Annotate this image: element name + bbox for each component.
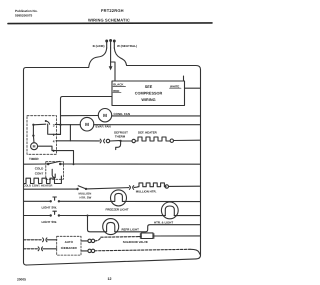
svg-text:M: M <box>33 145 36 149</box>
label REFR LIGHT <box>122 227 140 231</box>
timer terminal 4 stub to defrost row <box>56 140 70 142</box>
wire: contact bar to timer motor <box>32 136 35 143</box>
label BLACK with wire stub <box>113 83 124 87</box>
wire: mullion heater to right bus <box>169 185 201 187</box>
wire: icemaker bottom output to right bus corner <box>95 249 190 251</box>
timer internal contact dots and bar <box>32 124 34 126</box>
cold control contact dots <box>47 163 50 166</box>
wire: cold control heater link up into box <box>58 176 61 184</box>
timer terminal number 3 <box>53 123 55 127</box>
svg-text:FREEZER LIGHT: FREEZER LIGHT <box>106 208 129 212</box>
wire: solenoid valve to right bus <box>156 235 201 237</box>
solenoid valve coil <box>139 233 156 239</box>
svg-text:RED: RED <box>113 89 119 93</box>
connector: icemaker top feed <box>43 238 44 242</box>
label FREEZER LIGHT <box>106 208 129 212</box>
wire: icemaker top output to solenoid valve <box>95 237 139 241</box>
lamp: upper refr light <box>161 202 178 219</box>
timer internal wire to pivot <box>33 123 45 126</box>
wire: evap row tap down to defrost row <box>69 125 71 141</box>
timer terminal number 2 <box>53 149 55 153</box>
wire: left bus to icemaker top feed <box>24 239 43 241</box>
motor: evaporator fan <box>80 117 94 131</box>
svg-text:SOLENOID VALVE: SOLENOID VALVE <box>123 240 148 244</box>
svg-text:WHITE: WHITE <box>170 84 179 88</box>
lamp: lower refr light <box>103 219 119 235</box>
svg-text:WIRING: WIRING <box>141 98 155 102</box>
defrost thermostat switch and bimetal hook <box>110 140 120 142</box>
cold control capillary hook <box>52 169 55 177</box>
wire: timer motor to terminal 2 <box>38 146 57 150</box>
svg-text:5995200075: 5995200075 <box>15 14 32 18</box>
label B (LINE) <box>93 44 105 48</box>
ground arrow symbol <box>109 66 113 70</box>
compressor box (SEE COMPRESSOR WIRING) <box>112 81 185 106</box>
connector: defrost harness <box>100 139 101 143</box>
wire: condenser fan row right to bus <box>112 115 201 117</box>
timer motor <box>31 143 38 150</box>
label EVAP. FAN <box>96 125 111 129</box>
wire: condenser fan row left <box>61 115 99 117</box>
defrost heater element <box>135 137 170 141</box>
wire: right bus <box>196 70 201 259</box>
label LIGHT SW. (freezer) <box>42 206 57 210</box>
label WHITE with wire stub <box>170 84 179 88</box>
wire: left bus to cold control <box>24 163 48 165</box>
wire: mullion switch to connector <box>86 188 128 189</box>
svg-text:BLACK: BLACK <box>113 83 124 87</box>
cold control switch arm <box>48 161 59 164</box>
wire: evap fan row left <box>61 124 81 126</box>
cold control box dashed <box>46 162 64 180</box>
mullion heater switch arm <box>78 186 86 189</box>
ground wire from plug <box>110 48 112 66</box>
refr door light switch <box>50 214 52 216</box>
wire: line side from plug to left bus <box>24 48 107 70</box>
header horizontal rule <box>8 22 212 25</box>
label RED with wire stub <box>113 89 119 93</box>
label MULLION HTR. SW <box>79 192 92 200</box>
timer terminal 3 stub <box>55 123 60 125</box>
svg-text:COMPRESSOR: COMPRESSOR <box>135 92 163 96</box>
header publication number text <box>15 9 38 18</box>
timer box dashed <box>27 116 57 155</box>
svg-text:M: M <box>85 122 89 127</box>
wire: evap fan row right to bus <box>94 124 201 126</box>
defrost heater left terminal <box>132 139 135 142</box>
wire: left bus <box>24 70 28 265</box>
footer page number <box>108 277 112 281</box>
svg-text:COLD: COLD <box>35 167 44 171</box>
svg-text:M: M <box>103 113 107 118</box>
svg-text:12: 12 <box>108 277 112 281</box>
svg-text:AUTO: AUTO <box>65 240 74 244</box>
svg-text:LIGHT SW.: LIGHT SW. <box>42 220 57 224</box>
svg-text:B (LINE): B (LINE) <box>93 44 105 48</box>
icemaker top output connector circles <box>81 240 88 242</box>
node: junction cold control row <box>73 163 75 165</box>
svg-text:1: 1 <box>53 133 55 137</box>
wire: cold control output row to right bus <box>60 163 200 165</box>
svg-text:THERM: THERM <box>115 134 126 138</box>
wire: bottom return line <box>27 259 196 265</box>
mullion heater right terminal <box>165 185 168 188</box>
defrost heater right terminal <box>170 139 173 142</box>
svg-text:Publication No.: Publication No. <box>15 9 38 13</box>
timer switch arm pivot dot <box>45 120 47 122</box>
svg-text:REFR LIGHT: REFR LIGHT <box>122 227 140 231</box>
label COND FAN <box>114 112 131 116</box>
svg-text:20005: 20005 <box>17 278 26 282</box>
svg-text:FRT22RGH: FRT22RGH <box>101 8 124 13</box>
wire: mullion row from left bus <box>24 188 78 190</box>
label COLD CONT <box>35 167 44 176</box>
ground branch wire to compressor shell <box>111 62 115 81</box>
wire: connector to mullion heater <box>134 186 138 188</box>
label LIGHT SW. (refr) <box>42 220 57 224</box>
svg-text:W (NEUTRAL): W (NEUTRAL) <box>117 44 137 48</box>
label TIMER <box>29 157 39 161</box>
wire: switch to upper refr lamp <box>59 215 165 217</box>
label W (NEUTRAL) <box>117 44 137 48</box>
header model number text <box>101 8 124 13</box>
motor: condenser fan <box>98 109 111 122</box>
timer terminal number 4 <box>53 140 55 144</box>
timer internal link to terminal 1 <box>48 124 61 134</box>
node: branch junction <box>87 215 89 217</box>
icemaker bottom output connector circles <box>81 250 88 252</box>
svg-text:3: 3 <box>53 123 55 127</box>
svg-text:EVAP. FAN: EVAP. FAN <box>96 125 111 129</box>
mullion heater element <box>138 183 166 187</box>
node: junction dot at evap row <box>59 124 61 126</box>
svg-text:LIGHT SW.: LIGHT SW. <box>42 206 57 210</box>
header title WIRING SCHEMATIC <box>88 17 130 22</box>
svg-text:4: 4 <box>53 140 55 144</box>
wire: left bus to icemaker bottom feed <box>24 248 38 250</box>
freezer door light switch <box>50 200 52 202</box>
wire: compressor WHITE to right bus <box>185 87 201 89</box>
label DEF. HEATER <box>138 130 158 134</box>
svg-text:MULLION HTR.: MULLION HTR. <box>136 190 157 194</box>
svg-text:TIMER: TIMER <box>29 157 39 161</box>
svg-text:COLD CONT. HEATER: COLD CONT. HEATER <box>23 184 52 188</box>
svg-text:COND. FAN: COND. FAN <box>114 112 131 116</box>
wire: switch to freezer lamp <box>59 200 111 202</box>
wire: freezer lamp to right bus <box>122 200 200 202</box>
label AUTO ICEMAKER <box>61 240 78 250</box>
wire: compressor RED to feed vertical <box>61 97 113 99</box>
wire: refr light row from left bus <box>24 215 51 217</box>
label MULLION HTR. <box>136 190 157 194</box>
wire: lower refr lamp up to right bus <box>115 225 201 232</box>
wire: branch down to lower refr lamp <box>88 216 107 232</box>
lamp: freezer light <box>111 190 127 206</box>
wire: upper refr lamp to right bus <box>174 215 200 217</box>
svg-text:DEF. HEATER: DEF. HEATER <box>138 130 158 134</box>
wire: freezer light row from left bus <box>24 200 51 202</box>
svg-text:2: 2 <box>53 149 55 153</box>
stub above compressor box <box>183 76 185 81</box>
timer terminal number 1 <box>53 133 55 137</box>
mullion heater switch dots <box>76 188 78 190</box>
timer terminal 1 stub <box>56 133 61 135</box>
connector: icemaker bottom feed <box>38 247 39 251</box>
cold control heater element <box>24 178 59 183</box>
timer switch arm <box>46 121 50 124</box>
svg-text:CONT: CONT <box>35 171 44 175</box>
label SOLENOID VALVE <box>123 240 148 244</box>
defrost thermostat left terminal <box>106 139 109 142</box>
svg-text:SEE: SEE <box>145 85 153 89</box>
svg-text:WIRING SCHEMATIC: WIRING SCHEMATIC <box>88 17 130 22</box>
label COLD CONT. HEATER <box>23 184 52 188</box>
wire: thermostat to heater <box>122 140 132 142</box>
wire: defrost heater to right bus <box>174 139 201 141</box>
wire: feed vertical to timer terminals <box>60 99 62 135</box>
label DEFROST THERM <box>114 131 128 139</box>
power plug blades <box>106 40 115 48</box>
icemaker box dashed <box>57 236 81 255</box>
connector: mullion harness <box>129 186 130 190</box>
svg-text:ICEMAKER: ICEMAKER <box>61 246 78 250</box>
footer code text <box>17 278 26 282</box>
svg-text:HTR. & LIGHT: HTR. & LIGHT <box>154 220 173 224</box>
wire: timer terminal 2 jog <box>57 151 74 165</box>
label HTR. & LIGHT <box>154 220 173 224</box>
wire: neutral side from plug to right bus <box>114 48 200 70</box>
wire: defrost row to thermostat <box>70 140 99 142</box>
svg-text:HTR. SW: HTR. SW <box>80 195 92 199</box>
